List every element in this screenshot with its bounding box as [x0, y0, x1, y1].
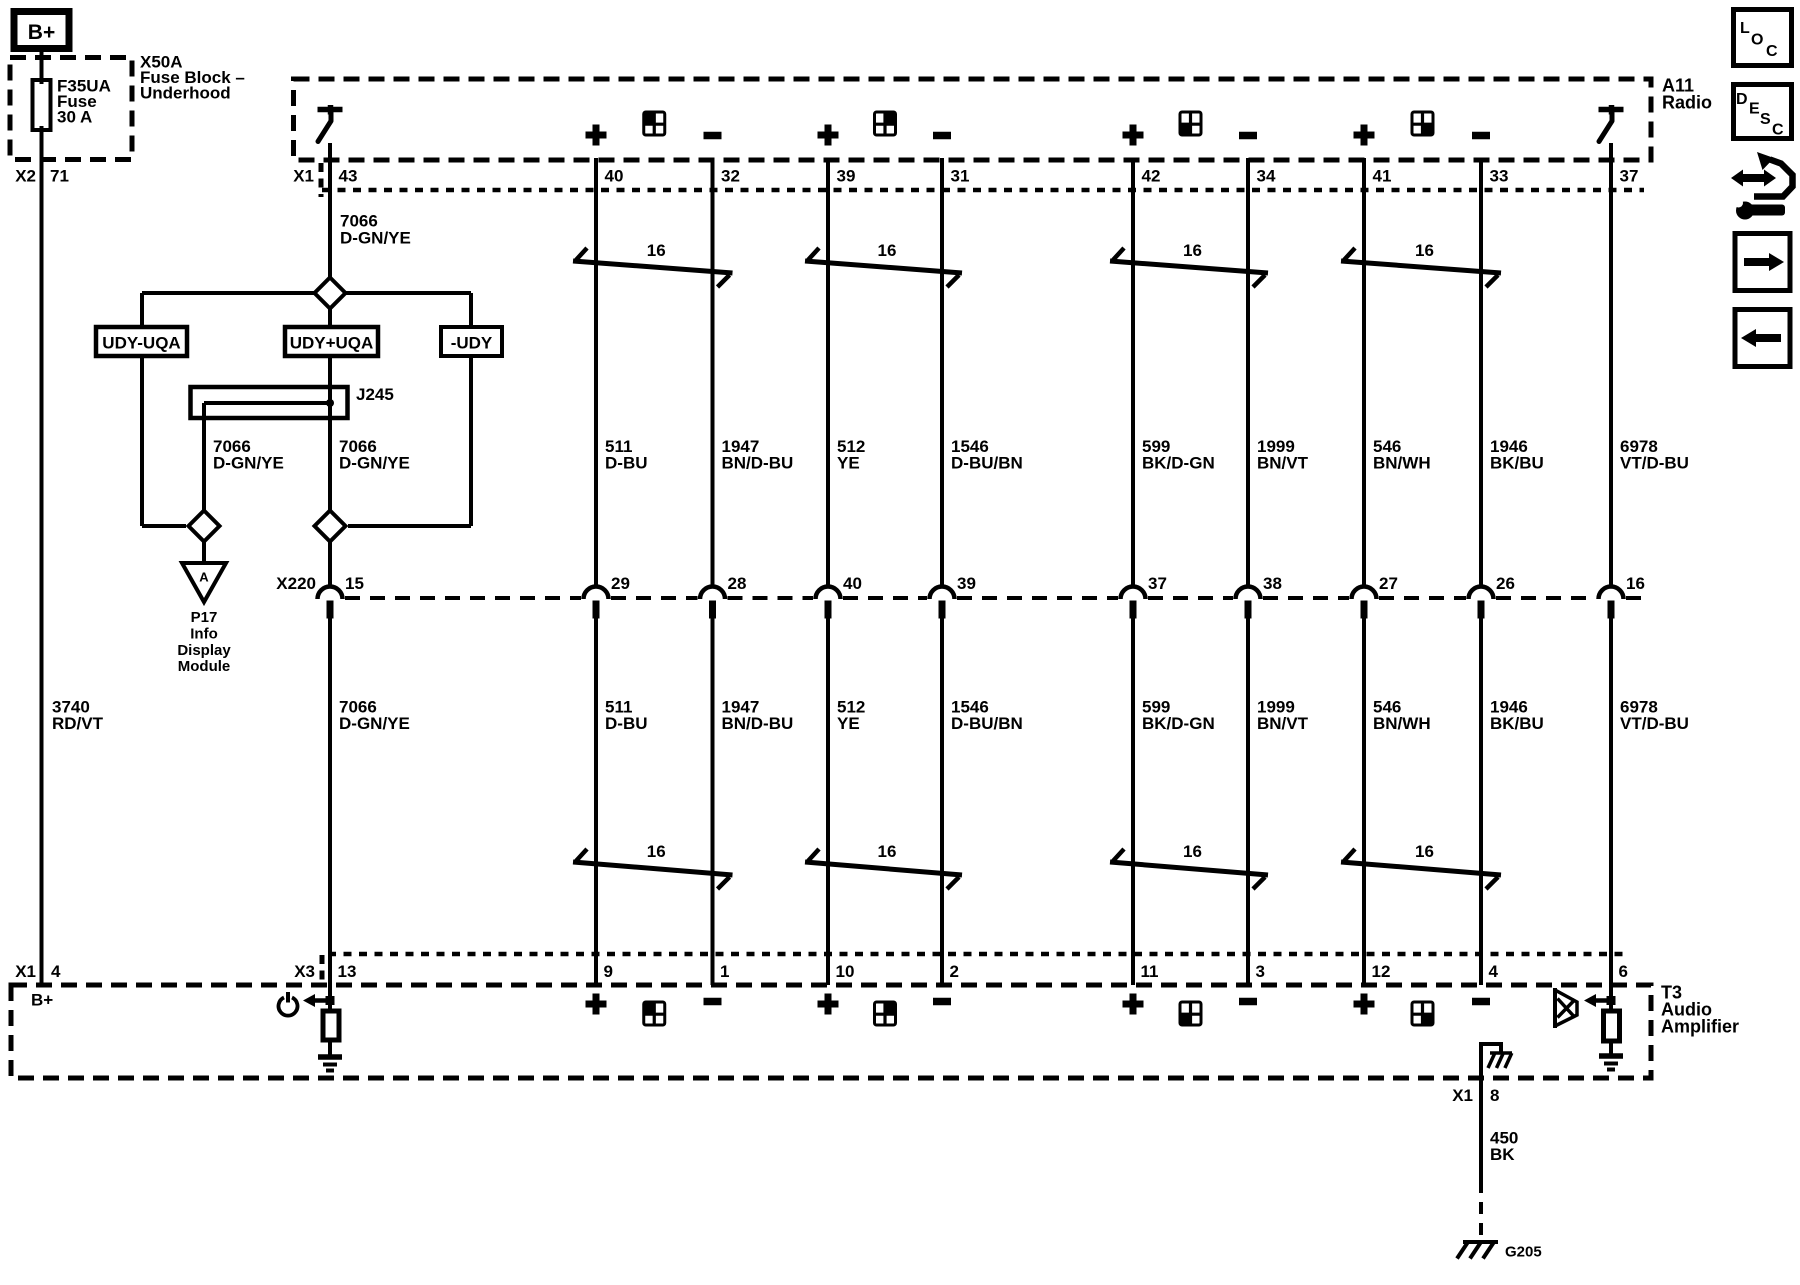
svg-text:2: 2: [950, 962, 959, 981]
svg-text:BN/D-BU: BN/D-BU: [722, 454, 794, 473]
svg-text:D-BU/BN: D-BU/BN: [951, 714, 1023, 733]
svg-text:27: 27: [1379, 574, 1398, 593]
svg-text:9: 9: [604, 962, 613, 981]
svg-text:16: 16: [878, 241, 897, 260]
svg-text:33: 33: [1490, 167, 1509, 186]
svg-text:X1: X1: [293, 167, 314, 186]
svg-text:BN/WH: BN/WH: [1373, 714, 1431, 733]
svg-text:BK/BU: BK/BU: [1490, 454, 1544, 473]
svg-text:D-GN/YE: D-GN/YE: [340, 229, 411, 248]
svg-text:BK/D-GN: BK/D-GN: [1142, 454, 1215, 473]
svg-text:37: 37: [1148, 574, 1167, 593]
svg-text:A: A: [199, 570, 209, 585]
svg-text:39: 39: [837, 167, 856, 186]
svg-text:D-GN/YE: D-GN/YE: [339, 454, 410, 473]
svg-text:X2: X2: [15, 167, 36, 186]
svg-text:71: 71: [50, 167, 69, 186]
svg-text:31: 31: [951, 167, 970, 186]
svg-text:BN/VT: BN/VT: [1257, 714, 1309, 733]
svg-text:4: 4: [51, 962, 61, 981]
svg-text:RD/VT: RD/VT: [52, 714, 104, 733]
svg-text:Amplifier: Amplifier: [1661, 1017, 1739, 1037]
svg-text:S: S: [1760, 111, 1771, 128]
svg-text:C: C: [1772, 122, 1784, 139]
svg-text:E: E: [1749, 101, 1760, 118]
svg-text:UDY+UQA: UDY+UQA: [290, 334, 374, 353]
svg-text:B+: B+: [31, 991, 53, 1010]
svg-text:10: 10: [836, 962, 855, 981]
svg-text:28: 28: [728, 574, 747, 593]
svg-text:16: 16: [878, 842, 897, 861]
svg-text:34: 34: [1257, 167, 1276, 186]
svg-text:Radio: Radio: [1662, 93, 1712, 113]
svg-text:BK/D-GN: BK/D-GN: [1142, 714, 1215, 733]
svg-text:UDY-UQA: UDY-UQA: [102, 334, 180, 353]
svg-text:X220: X220: [276, 574, 316, 593]
svg-text:D: D: [1736, 91, 1748, 108]
svg-text:16: 16: [1183, 842, 1202, 861]
svg-text:D-BU: D-BU: [605, 714, 648, 733]
svg-text:16: 16: [647, 842, 666, 861]
svg-text:D-GN/YE: D-GN/YE: [339, 714, 410, 733]
svg-text:42: 42: [1142, 167, 1161, 186]
svg-text:38: 38: [1263, 574, 1282, 593]
svg-text:13: 13: [338, 962, 357, 981]
svg-text:40: 40: [843, 574, 862, 593]
svg-text:-UDY: -UDY: [451, 334, 493, 353]
svg-text:16: 16: [1415, 842, 1434, 861]
svg-text:39: 39: [957, 574, 976, 593]
svg-text:12: 12: [1372, 962, 1391, 981]
svg-text:Module: Module: [178, 658, 231, 675]
svg-text:D-GN/YE: D-GN/YE: [213, 454, 284, 473]
svg-text:30 A: 30 A: [57, 108, 92, 127]
svg-text:Info: Info: [190, 626, 218, 643]
svg-text:8: 8: [1490, 1086, 1499, 1105]
svg-text:VT/D-BU: VT/D-BU: [1620, 454, 1689, 473]
svg-text:BK/BU: BK/BU: [1490, 714, 1544, 733]
svg-text:BK: BK: [1490, 1145, 1515, 1164]
svg-text:X1: X1: [1452, 1086, 1473, 1105]
svg-text:X1: X1: [15, 962, 36, 981]
svg-text:16: 16: [1626, 574, 1645, 593]
svg-text:11: 11: [1141, 962, 1159, 981]
svg-text:O: O: [1751, 32, 1763, 49]
svg-text:C: C: [1766, 43, 1778, 60]
svg-text:16: 16: [1183, 241, 1202, 260]
svg-text:26: 26: [1496, 574, 1515, 593]
svg-text:16: 16: [1415, 241, 1434, 260]
svg-text:P17: P17: [191, 609, 218, 626]
svg-text:BN/D-BU: BN/D-BU: [722, 714, 794, 733]
svg-text:J245: J245: [356, 385, 394, 404]
svg-text:Display: Display: [177, 642, 231, 659]
svg-text:4: 4: [1489, 962, 1499, 981]
svg-text:X3: X3: [294, 962, 315, 981]
svg-text:VT/D-BU: VT/D-BU: [1620, 714, 1689, 733]
svg-text:B+: B+: [28, 21, 55, 44]
svg-text:BN/WH: BN/WH: [1373, 454, 1431, 473]
svg-text:D-BU: D-BU: [605, 454, 648, 473]
svg-text:YE: YE: [837, 714, 860, 733]
svg-text:D-BU/BN: D-BU/BN: [951, 454, 1023, 473]
svg-text:16: 16: [647, 241, 666, 260]
svg-text:41: 41: [1373, 167, 1392, 186]
svg-text:40: 40: [605, 167, 624, 186]
svg-text:15: 15: [345, 574, 364, 593]
svg-text:6: 6: [1619, 962, 1628, 981]
svg-text:G205: G205: [1505, 1244, 1542, 1261]
svg-text:Underhood: Underhood: [140, 84, 231, 103]
svg-text:1: 1: [720, 962, 729, 981]
svg-text:37: 37: [1620, 167, 1639, 186]
svg-text:3: 3: [1256, 962, 1265, 981]
svg-text:L: L: [1740, 20, 1750, 37]
svg-text:YE: YE: [837, 454, 860, 473]
svg-text:32: 32: [721, 167, 740, 186]
svg-text:BN/VT: BN/VT: [1257, 454, 1309, 473]
svg-text:29: 29: [611, 574, 630, 593]
svg-text:43: 43: [339, 167, 358, 186]
